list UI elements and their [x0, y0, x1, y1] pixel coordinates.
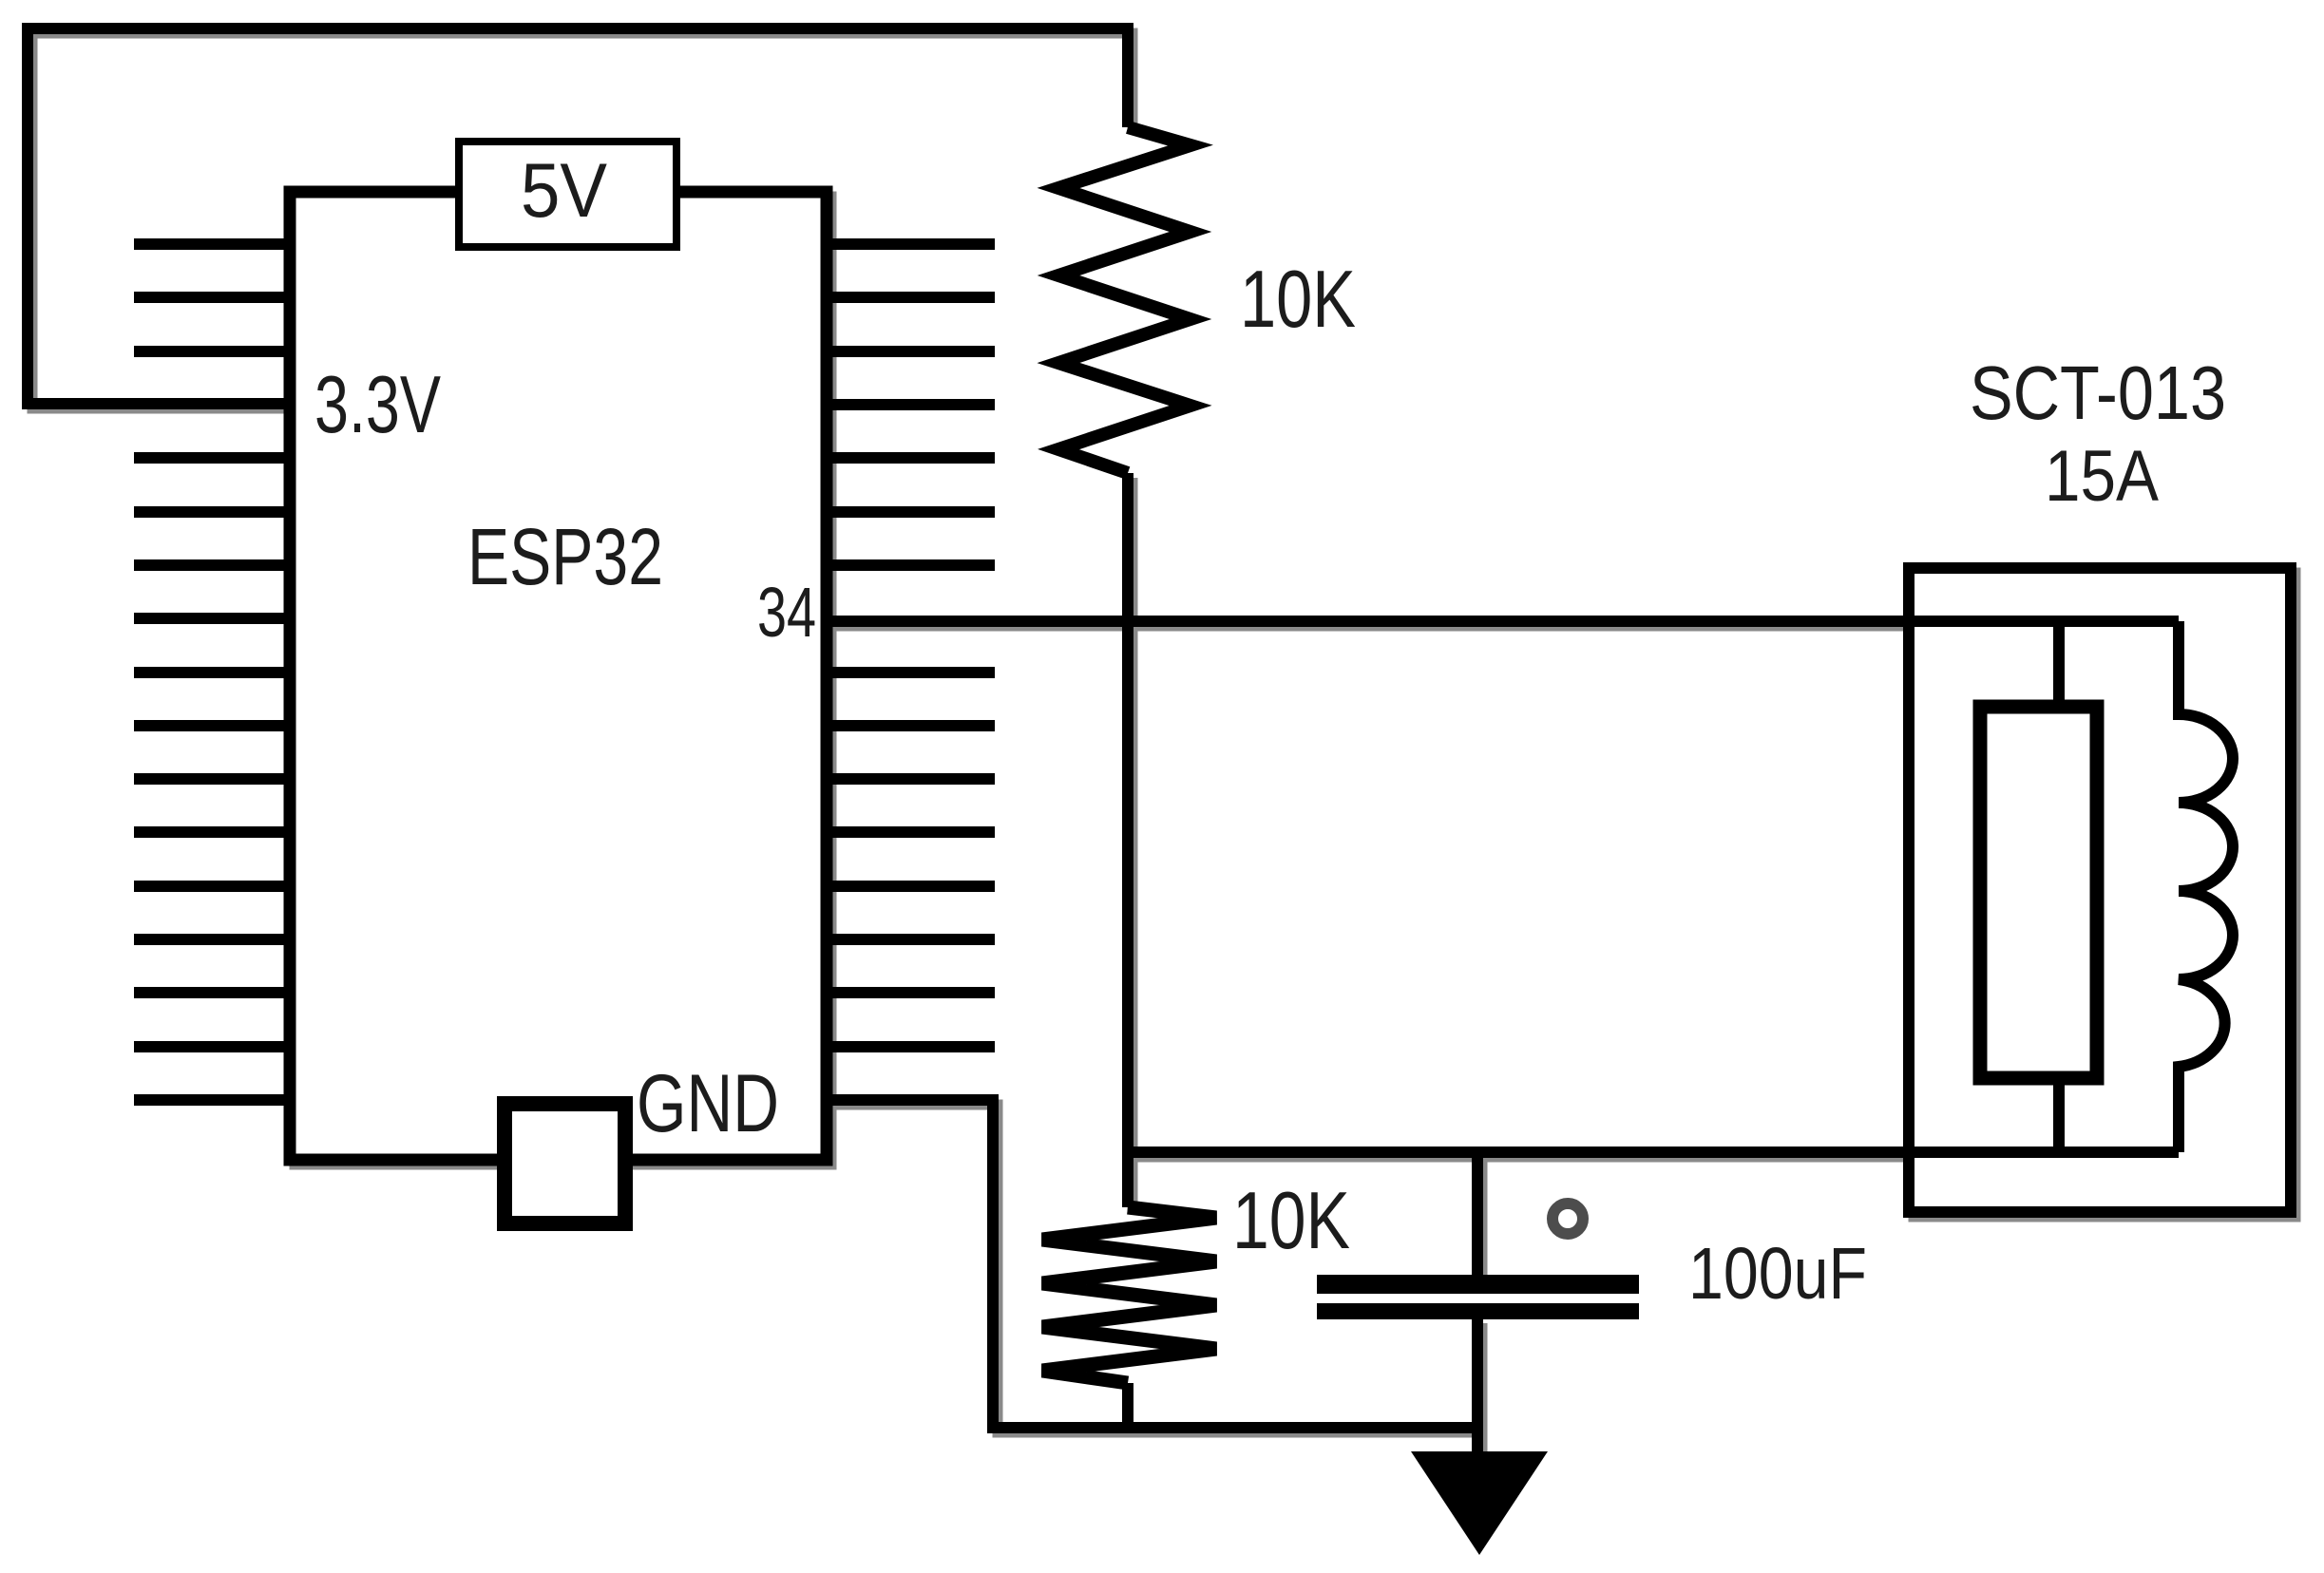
ground symbol — [1411, 1451, 1548, 1555]
svg-text:10K: 10K — [1240, 255, 1356, 345]
capacitor C1 top plate — [1317, 1275, 1639, 1294]
5V supply box — [459, 142, 676, 247]
capacitor polarity mark — [1553, 1203, 1583, 1234]
svg-text:10K: 10K — [1232, 1176, 1350, 1266]
svg-text:GND: GND — [637, 1058, 779, 1149]
wire: outer 3.3V loop — [28, 28, 1128, 404]
svg-text:3.3V: 3.3V — [314, 360, 441, 450]
svg-text:SCT-013: SCT-013 — [1970, 351, 2226, 435]
inductor coil L1 (CT secondary) — [2179, 621, 2233, 1152]
resistor R2 10K (bottom) — [1042, 1207, 1216, 1383]
GND pad square on ESP32 — [505, 1104, 625, 1223]
resistor R1 10K (top) — [1058, 127, 1191, 473]
SCT-013 outer box — [1909, 568, 2291, 1212]
wire: pin 34 to SCT-013 — [827, 616, 2179, 627]
ESP32 left pins — [134, 244, 291, 1100]
SCT-013 burden resistor rect — [1980, 707, 2097, 1078]
wire: R2 bottom lead — [1122, 1383, 1133, 1433]
svg-text:ESP32: ESP32 — [467, 512, 663, 601]
svg-text:5V: 5V — [521, 148, 607, 234]
wire: GND pin to ground net — [827, 1100, 1476, 1428]
wire: capacitor top lead — [1472, 1152, 1483, 1277]
svg-text:100uF: 100uF — [1688, 1233, 1867, 1315]
svg-text:15A: 15A — [2045, 436, 2159, 517]
wire: resistor divider vertical — [1122, 473, 1133, 1207]
wire: burden bottom lead — [2053, 1078, 2065, 1152]
wire: capacitor bottom lead — [1472, 1318, 1483, 1453]
ESP32 right pins — [827, 244, 995, 1047]
capacitor C1 bottom plate — [1317, 1303, 1639, 1319]
ESP32 module body U1 — [290, 192, 827, 1160]
svg-text:34: 34 — [757, 573, 816, 652]
wire: SCT-013 return to divider node — [1128, 1147, 2179, 1158]
wire: burden top lead — [2053, 621, 2065, 707]
